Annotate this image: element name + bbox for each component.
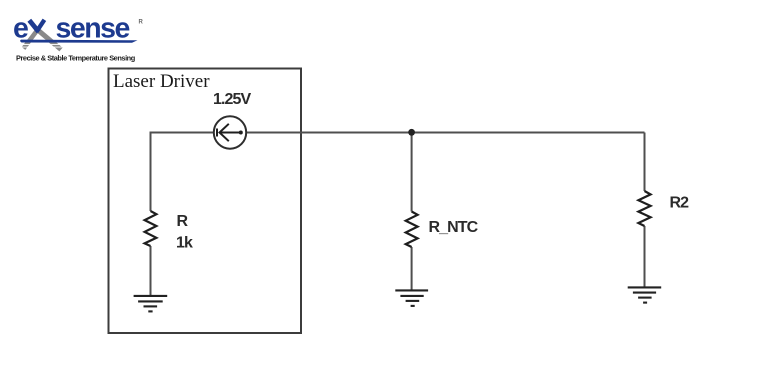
svg-text:Precise & Stable Temperature S: Precise & Stable Temperature Sensing [16,54,136,63]
svg-text:1.25V: 1.25V [213,91,252,108]
svg-text:R2: R2 [670,195,690,212]
svg-text:R_NTC: R_NTC [429,219,479,236]
svg-text:R: R [177,213,189,230]
svg-text:1k: 1k [176,235,193,252]
svg-text:R: R [139,20,144,26]
svg-text:Laser Driver: Laser Driver [113,71,210,92]
svg-text:sense: sense [56,13,130,45]
